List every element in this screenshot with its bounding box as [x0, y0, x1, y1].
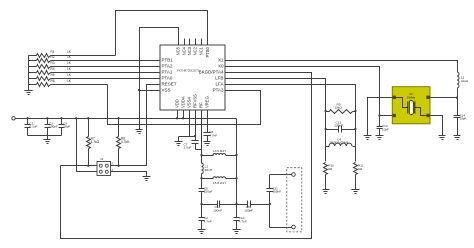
svg-text:X1: X1: [218, 58, 224, 63]
wire J1 pin1: [61, 165, 98, 167]
svg-text:L5 8.2nH: L5 8.2nH: [213, 181, 226, 185]
svg-text:220pF: 220pF: [204, 190, 213, 194]
svg-text:LFB: LFB: [215, 76, 223, 81]
resistor R2: [29, 55, 161, 62]
node RF4: [235, 203, 237, 205]
ground (J1 pin4): [143, 177, 151, 181]
wire BKGD loop: [61, 73, 312, 239]
wire VDD rail: [16, 118, 237, 120]
resistor R4: [29, 67, 161, 74]
svg-text:VSSA: VSSA: [187, 97, 192, 108]
wire xtal TR: [430, 97, 458, 99]
wire xtal TL ground: [368, 98, 394, 136]
ground (VSSA): [175, 137, 183, 146]
svg-text:PTA2: PTA2: [162, 64, 173, 69]
resistor R6: [29, 79, 108, 86]
wire xtal BR ground: [430, 116, 443, 136]
svg-text:100nF: 100nF: [272, 190, 281, 194]
svg-text:10pF: 10pF: [460, 117, 467, 121]
wire PTA3 loop: [108, 85, 261, 125]
ground (xtal TL): [364, 136, 372, 140]
svg-text:VDDA: VDDA: [181, 96, 186, 108]
svg-text:X0: X0: [218, 64, 224, 69]
resistor R3: [29, 61, 161, 68]
svg-text:B82450A7544E: B82450A7544E: [330, 141, 348, 145]
capacitor C5: [202, 201, 237, 213]
svg-text:4.7nF: 4.7nF: [239, 219, 247, 223]
svg-text:4.7kΩ: 4.7kΩ: [91, 140, 100, 144]
svg-text:10pF: 10pF: [63, 125, 70, 129]
svg-text:PTA0: PTA0: [162, 76, 173, 81]
inductor L2: [202, 156, 213, 179]
capacitor C3: [59, 117, 71, 135]
svg-text:X1: X1: [409, 92, 413, 96]
pin RFVSS: [194, 111, 196, 138]
svg-text:R1: R1: [51, 50, 55, 54]
svg-text:NC5: NC5: [176, 46, 181, 55]
capacitor C12: [324, 120, 356, 132]
node VBAT terminal: [12, 117, 15, 120]
ground (test bus): [25, 91, 33, 95]
pin VDDA: [182, 111, 184, 120]
ground (C4): [198, 230, 206, 234]
capacitor C14: [454, 98, 467, 136]
resistor R5: [29, 73, 161, 80]
svg-text:VREG: VREG: [205, 96, 210, 108]
svg-text:VSS: VSS: [162, 88, 171, 93]
wire J1 pin4: [111, 172, 147, 177]
svg-text:10pF: 10pF: [382, 128, 389, 132]
ground (R11): [352, 190, 360, 194]
svg-text:VDD: VDD: [175, 99, 180, 108]
svg-text:0Ω: 0Ω: [328, 167, 333, 171]
node RF2: [200, 177, 202, 179]
ground (bypass caps): [44, 136, 51, 144]
wire J1 pin2 to RESET: [111, 85, 161, 166]
svg-text:NC4: NC4: [182, 46, 187, 55]
svg-text:NC1: NC1: [199, 46, 204, 55]
node VDD-J1: [75, 117, 77, 119]
ground (C10): [233, 230, 241, 234]
resistor R11: [354, 163, 364, 190]
svg-text:R3: R3: [51, 61, 55, 65]
node RF5: [269, 203, 271, 205]
wire antenna top: [270, 174, 292, 176]
svg-text:10kΩ: 10kΩ: [335, 106, 343, 110]
capacitor C11: [267, 175, 282, 205]
svg-text:0.1uF: 0.1uF: [30, 125, 38, 129]
capacitor C8: [204, 111, 218, 142]
wire NC5-VSS loop: [140, 28, 179, 91]
ground (C8): [204, 142, 211, 146]
wire antenna bottom: [270, 205, 292, 228]
resistor R7: [87, 117, 100, 167]
capacitor C9: [237, 201, 270, 213]
wire bypass bottom: [28, 135, 62, 137]
node test bus: [28, 56, 30, 91]
svg-text:BKGD/PTA4: BKGD/PTA4: [199, 70, 224, 75]
svg-text:150pF: 150pF: [244, 209, 253, 213]
resistor R1: [29, 50, 116, 57]
capacitor C2: [45, 117, 58, 135]
capacitor C7: [184, 137, 202, 150]
svg-text:4.7kΩ: 4.7kΩ: [121, 140, 130, 144]
inductor L5: [202, 177, 237, 185]
ground (xtal BR): [439, 136, 446, 140]
pin VSSA: [189, 111, 191, 137]
pin VDD: [176, 111, 178, 120]
resistor R9: [324, 102, 356, 113]
wire X0: [226, 67, 394, 116]
svg-text:RESET: RESET: [162, 82, 177, 87]
svg-text:L3 6.8nH: L3 6.8nH: [213, 149, 226, 153]
wire VSS ground bus: [179, 136, 196, 138]
svg-text:R6: R6: [51, 79, 55, 83]
resistor R8: [117, 117, 130, 167]
resistor R10: [324, 163, 335, 190]
node L1-C14: [456, 97, 458, 99]
wire RF right rail: [235, 119, 237, 205]
inductor L4: [326, 137, 356, 146]
svg-text:4.7nF: 4.7nF: [209, 134, 217, 138]
svg-text:FXTH870511DT1: FXTH870511DT1: [177, 68, 200, 72]
capacitor C6: [199, 179, 213, 205]
pin stubs NC1-NC4: [185, 39, 202, 46]
svg-text:PTA1: PTA1: [162, 70, 173, 75]
svg-text:J1: J1: [100, 157, 104, 161]
svg-text:220pF: 220pF: [334, 124, 343, 128]
svg-text:PTA3: PTA3: [213, 88, 224, 93]
svg-text:10uH: 10uH: [461, 79, 468, 83]
capacitor C10: [234, 205, 247, 230]
crystal X1 26MHz: [392, 87, 430, 124]
ground (C13): [376, 136, 384, 140]
svg-text:R5: R5: [51, 73, 55, 77]
svg-text:PTB0: PTB0: [205, 46, 210, 57]
wire PTB0 loop: [116, 11, 208, 56]
svg-text:NC2: NC2: [193, 46, 198, 55]
node VSS junction: [138, 89, 140, 91]
wire X1: [226, 61, 458, 73]
svg-text:RFVSS: RFVSS: [193, 94, 198, 108]
svg-text:56nH: 56nH: [205, 168, 212, 172]
antenna E1 (dashed): [287, 168, 302, 232]
node X0-C13: [378, 114, 380, 116]
svg-text:R2: R2: [51, 55, 55, 59]
svg-text:LFA: LFA: [215, 82, 223, 87]
IC U1 FXTH870511DT1: [160, 45, 225, 110]
svg-text:1.0uF: 1.0uF: [184, 146, 192, 150]
ground (R10): [323, 190, 330, 194]
svg-text:NC3: NC3: [187, 46, 192, 55]
wire VDD to J1 pin3: [77, 119, 98, 172]
svg-text:RF: RF: [199, 102, 204, 108]
node RF1: [200, 154, 202, 156]
svg-text:26MHz: 26MHz: [407, 96, 416, 100]
capacitor C4: [199, 205, 212, 230]
inductor L1: [457, 72, 468, 98]
pin RF: [201, 111, 203, 156]
wire LFA: [226, 85, 356, 162]
svg-text:100pF: 100pF: [49, 125, 58, 129]
inductor L3: [202, 149, 237, 156]
svg-text:4.7nF: 4.7nF: [204, 219, 212, 223]
connector J1: [97, 157, 113, 176]
ground (VSS): [136, 91, 143, 134]
svg-text:PTB1: PTB1: [162, 58, 174, 63]
capacitor C13: [377, 116, 390, 136]
node RF3: [200, 203, 202, 205]
ground (C14): [454, 136, 461, 140]
wire LFB: [226, 79, 326, 162]
svg-text:R4: R4: [51, 67, 55, 71]
svg-text:100nF: 100nF: [213, 209, 222, 213]
svg-text:0Ω: 0Ω: [358, 167, 363, 171]
wire VSS row: [140, 90, 161, 92]
capacitor C1: [25, 117, 38, 135]
